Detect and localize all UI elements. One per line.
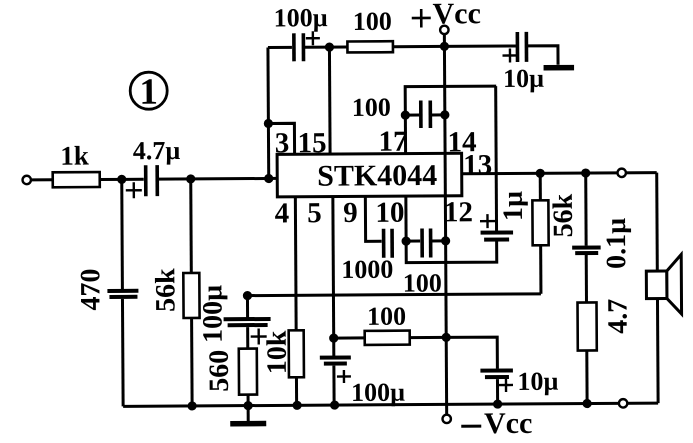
- wire 10µ to ground: [528, 46, 558, 65]
- input terminal: [23, 176, 31, 184]
- wire right edge top: [655, 173, 659, 271]
- node feedback mid: [243, 291, 252, 300]
- capacitor 100 top (pins 17-14): [352, 92, 445, 128]
- node rail 10µ: [493, 399, 502, 408]
- svg-text:56k: 56k: [548, 193, 579, 237]
- wire feedback mid: [247, 294, 540, 296]
- node rail 4.7: [582, 399, 591, 408]
- resistor 100 top: [329, 6, 444, 52]
- wire 56k-left top: [189, 179, 193, 273]
- svg-text:1k: 1k: [60, 141, 89, 171]
- resistor 56k left: [150, 268, 199, 319]
- node 0.1µ top: [581, 168, 590, 177]
- wire pin14-12 through IC: [444, 153, 447, 195]
- resistor 10k: [262, 330, 304, 405]
- capacitor 100µ left: [197, 284, 270, 349]
- wire pin 13 output: [462, 173, 657, 174]
- svg-text:9: 9: [343, 197, 358, 229]
- node pin12 resistor tap: [442, 333, 451, 342]
- svg-text:5: 5: [307, 197, 322, 229]
- wire pin 15: [328, 47, 332, 154]
- wire pin 9: [365, 196, 381, 241]
- wire 1µ top to box: [494, 86, 498, 231]
- wire link pin10 node to 1µ bottom: [406, 241, 497, 263]
- svg-text:17: 17: [378, 126, 407, 158]
- wire pin 4: [294, 197, 298, 330]
- svg-text:15: 15: [297, 127, 326, 159]
- wire pin 5: [331, 197, 335, 356]
- wire pin 17: [404, 115, 407, 153]
- capacitor 4.7µ: [125, 136, 180, 198]
- svg-text:4.7µ: 4.7µ: [133, 136, 181, 165]
- bottom rail wire: [123, 403, 658, 406]
- capacitor 10µ bottom: [480, 367, 558, 404]
- wire 470 branch: [120, 179, 124, 289]
- svg-text:56k: 56k: [150, 268, 181, 312]
- svg-text:Vcc: Vcc: [432, 0, 480, 30]
- node 56k tap: [186, 174, 195, 183]
- node pin10 cap row: [401, 237, 410, 246]
- capacitor 100 mid: [403, 228, 446, 297]
- capacitor 1000: [341, 229, 393, 284]
- wire pin 10: [404, 196, 407, 241]
- capacitor 470: [75, 268, 138, 310]
- node input shunt: [117, 175, 126, 184]
- svg-text:100µ: 100µ: [351, 378, 405, 407]
- svg-text:100: 100: [403, 268, 442, 297]
- resistor 56k right: [532, 173, 579, 294]
- resistor 100 bottom: [333, 301, 446, 345]
- svg-text:1: 1: [139, 72, 158, 113]
- terminal +VCC: [412, 0, 481, 51]
- capacitor 100µ mid: [320, 357, 405, 407]
- wire 470 to rail: [121, 299, 125, 406]
- capacitor 10µ top: [502, 32, 544, 93]
- svg-text:100: 100: [352, 93, 391, 122]
- svg-text:100: 100: [353, 7, 392, 36]
- IC STK4044: [277, 153, 462, 197]
- svg-text:100µ: 100µ: [197, 285, 228, 343]
- svg-text:10µ: 10µ: [503, 64, 544, 93]
- svg-text:13: 13: [463, 149, 492, 181]
- wire left feedback vertical: [266, 47, 270, 178]
- wire input to 1k: [31, 178, 52, 181]
- wire 1k to 4.7µ cap: [100, 178, 144, 181]
- svg-text:470: 470: [75, 268, 106, 310]
- ground top right: [544, 65, 574, 71]
- svg-text:4.7: 4.7: [602, 299, 633, 334]
- svg-text:0.1µ: 0.1µ: [601, 218, 632, 269]
- wire to 10µ bottom: [446, 337, 497, 369]
- wire pin 3 bracket: [268, 123, 294, 154]
- svg-text:100: 100: [367, 302, 406, 331]
- svg-text:4: 4: [275, 197, 290, 229]
- node 56k right top: [536, 169, 545, 178]
- node rail 560: [243, 401, 252, 410]
- svg-text:560: 560: [204, 350, 235, 392]
- node rail 100µ: [330, 400, 339, 409]
- node rail 10k: [292, 401, 301, 410]
- node pin3: [264, 119, 273, 128]
- svg-text:10µ: 10µ: [517, 367, 558, 396]
- svg-text:1000: 1000: [341, 255, 393, 284]
- output terminal top: [617, 169, 625, 177]
- svg-text:STK4044: STK4044: [317, 159, 437, 193]
- node pin17: [401, 111, 410, 120]
- capacitor 100µ top: [268, 3, 330, 61]
- wire box top pin17 to 1µ: [405, 86, 496, 115]
- wire cap row left: [406, 240, 420, 243]
- svg-text:100µ: 100µ: [274, 3, 328, 32]
- svg-text:10: 10: [375, 197, 404, 229]
- resistor 4.7: [577, 299, 634, 404]
- svg-text:3: 3: [275, 127, 290, 159]
- output terminal bottom: [619, 399, 627, 407]
- capacitor 0.1µ: [572, 173, 633, 303]
- wire 4.7µ to IC input: [157, 177, 277, 181]
- resistor 1k: [53, 141, 100, 188]
- node pin15 top: [325, 42, 334, 51]
- wire pin 14: [443, 46, 447, 153]
- speaker: [646, 254, 682, 403]
- node pin14 cap: [440, 110, 449, 119]
- terminal -VCC: [442, 407, 532, 441]
- node rail 56k: [187, 401, 196, 410]
- svg-text:1µ: 1µ: [498, 191, 529, 221]
- wire 56k-left bottom: [190, 318, 194, 406]
- wire vcc to 10µ: [444, 44, 515, 47]
- node pin5 resistor tap: [329, 333, 338, 342]
- svg-text:10k: 10k: [262, 330, 293, 374]
- wire pin 12 column: [445, 196, 446, 414]
- ground bottom: [230, 405, 266, 423]
- svg-text:12: 12: [444, 196, 473, 228]
- resistor 560: [204, 349, 257, 406]
- node feedback tap: [264, 174, 273, 183]
- figure number circled 1: [130, 72, 167, 113]
- capacitor 1µ: [480, 191, 529, 240]
- svg-text:Vcc: Vcc: [484, 407, 532, 440]
- node pin12 cap row: [441, 236, 450, 245]
